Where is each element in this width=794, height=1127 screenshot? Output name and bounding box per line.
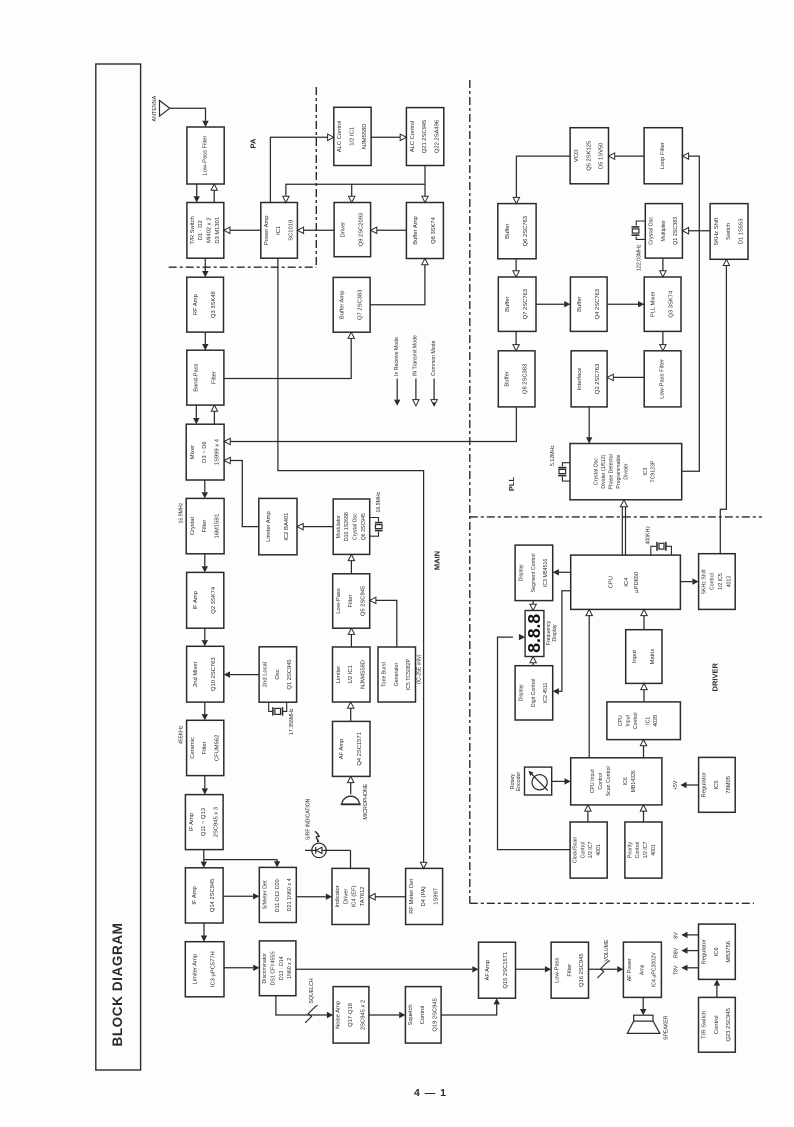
svg-text:5KHz Shift: 5KHz Shift (714, 217, 720, 245)
block RF Amp Q3 3SK48 (187, 277, 224, 332)
svg-text:Switch: Switch (726, 223, 732, 240)
block Discriminator DS1 CFY455S D13 D14 (259, 941, 296, 996)
svg-text:+5V: +5V (673, 780, 679, 790)
svg-text:Crystal Osc: Crystal Osc (353, 513, 359, 540)
IC3 TC9123P Crystal Osc Divider Phase Detector Programmable Divider (570, 444, 682, 500)
wire CPU to Display Digit Control (559, 591, 571, 692)
crystal X 17.356MHz (2nd local osc) (269, 702, 273, 711)
block Crystal Osc Multiplier Q1 2SC383 (645, 204, 682, 259)
block Low-Pass Filter (antenna) (187, 127, 224, 184)
svg-text:1S999 x 4: 1S999 x 4 (214, 438, 220, 465)
svg-text:VOLUME: VOLUME (604, 939, 610, 961)
wire Interface Q2 to IC3 TC9123P (588, 407, 590, 437)
block Interface Q2 2SC763 (571, 351, 607, 407)
crystal X 5.12MHz (reference) (562, 463, 570, 467)
wire ALC IC1 to ALC Q21/Q22 (371, 136, 400, 138)
wire Limiter Amp IC3 to Discriminator (224, 967, 253, 969)
svg-text:D4 (PA): D4 (PA) (421, 886, 427, 906)
svg-text:Ceramic: Ceramic (190, 737, 196, 759)
svg-text:Segment Control: Segment Control (531, 553, 537, 592)
block Modulator D10 1S2688 Crystal Osc Q6 2SC945 (333, 499, 370, 554)
wire AF Power Amp to speaker (642, 997, 644, 1009)
wire Ceramic Filter to IF Amp Q11-Q13 (204, 776, 206, 789)
bus CPU to programmable divider (622, 505, 625, 555)
svg-text:1/2 IC1: 1/2 IC1 (349, 127, 355, 146)
wire RF Amp to Band-Pass Filter (204, 332, 206, 344)
wire T/R Switch to LPF (transmit) (213, 190, 215, 202)
wire IF Amp Q11-Q13 to IF Amp Q14 (203, 850, 205, 862)
svg-text:IC1: IC1 (646, 717, 652, 725)
block Buffer Q7 2SC763 (498, 277, 536, 331)
svg-text:D10 1S2688: D10 1S2688 (344, 512, 350, 541)
svg-text:Display: Display (519, 564, 525, 581)
svg-text:Squelch: Squelch (408, 1004, 414, 1025)
svg-text:CFUM562: CFUM562 (215, 735, 221, 761)
svg-text:D1 1S553: D1 1S553 (738, 219, 744, 245)
svg-text:T8V: T8V (673, 965, 679, 975)
block AF Power Amp IC4 uPC2002V (623, 942, 661, 997)
block AF Amp Q15 2SC1571 (479, 942, 516, 998)
svg-text:Low-Pass: Low-Pass (336, 588, 342, 614)
wire Discriminator to AF Amp Q15 (296, 968, 472, 970)
block IF Amp Q14 2SC945 (185, 868, 223, 923)
block IF Amp Q2 3SK74 (187, 572, 224, 628)
svg-text:Control: Control (714, 1015, 720, 1034)
block Driver Q9 2SC2093 (334, 203, 371, 257)
svg-text:D13 · D14: D13 · D14 (279, 956, 285, 980)
svg-text:SPEAKER: SPEAKER (664, 1015, 670, 1040)
wire LPF Q16 to AF Power Amp via volume (589, 968, 618, 970)
svg-text:Phase Detector: Phase Detector (609, 453, 615, 489)
svg-text:1/2 IC1: 1/2 IC1 (348, 665, 354, 684)
svg-text:Q2 3SK74: Q2 3SK74 (211, 586, 217, 614)
block Tone Burst Generator IC5 TC5082P (378, 647, 416, 702)
svg-text:ALC Control: ALC Control (337, 121, 343, 153)
svg-text:Discriminator: Discriminator (262, 953, 268, 984)
svg-text:μPD650: μPD650 (634, 572, 640, 593)
svg-text:TA7612: TA7612 (360, 886, 366, 906)
block Squelch Control Q19 2SC945 (405, 987, 441, 1044)
block Regulator IC6 MB3756 (699, 924, 736, 979)
svg-text:SC1019: SC1019 (288, 220, 294, 241)
block PLL Mixer Q3 3SK74 (644, 277, 681, 331)
wire Rotary Encoder to Scan Control (552, 780, 565, 782)
svg-text:IC4 μPC2002V: IC4 μPC2002V (652, 952, 658, 987)
svg-text:PA: PA (248, 138, 257, 148)
svg-text:Q14 2SC945: Q14 2SC945 (210, 879, 216, 913)
block Low-Pass Filter Q16 2SC945 (551, 942, 588, 998)
svg-text:2SC945 x 3: 2SC945 x 3 (214, 807, 220, 837)
svg-text:D11·D12·D20·: D11·D12·D20· (275, 877, 281, 912)
svg-text:16.9MHz: 16.9MHz (178, 502, 184, 523)
svg-text:MB14326: MB14326 (631, 770, 637, 792)
wire LPF Q5 to Modulator (350, 560, 352, 574)
svg-text:Indicator: Indicator (335, 885, 341, 907)
wire AF Amp Q4 to Limiter (350, 708, 352, 722)
svg-text:Q8 3SK74: Q8 3SK74 (431, 216, 437, 244)
wire Buffer Amp Q7 to Buffer Amp Q8 (370, 265, 425, 305)
svg-text:MB3756: MB3756 (726, 941, 732, 963)
wire IF Amp Q14 to S/Meter Det (223, 895, 253, 897)
svg-text:Crystal Osc: Crystal Osc (649, 217, 655, 245)
svg-text:Q7 2SC383: Q7 2SC383 (358, 290, 364, 320)
svg-text:Mixer: Mixer (190, 445, 196, 459)
svg-text:AF Amp: AF Amp (485, 960, 491, 981)
microphone symbol (342, 796, 359, 803)
svg-text:Q6 2SC945: Q6 2SC945 (361, 513, 367, 540)
wire Input Matrix to CPU (643, 616, 645, 630)
svg-text:Crystal: Crystal (190, 517, 196, 535)
squelch control mark (305, 1005, 317, 1023)
svg-text:CPU: CPU (618, 715, 624, 726)
block 2nd Mixer Q10 2SC763 (187, 646, 224, 702)
wire IF Amp Q14 to Limiter Amp IC3 (203, 923, 205, 936)
wire Segment Control to Frequency Display (532, 601, 534, 605)
svg-text:Q11 ~ Q13: Q11 ~ Q13 (201, 808, 207, 836)
svg-text:Control: Control (598, 773, 604, 790)
wire S/Meter Det to Indicator Driver (296, 896, 326, 898)
svg-text:Q9 2SC2093: Q9 2SC2093 (358, 213, 364, 247)
svg-text:IC1: IC1 (276, 226, 282, 235)
wire Digit Control to Frequency Display (532, 663, 534, 666)
svg-text:D3 ~ D6: D3 ~ D6 (202, 441, 208, 462)
svg-text:Q2 2SC763: Q2 2SC763 (595, 364, 601, 394)
svg-text:455KHz: 455KHz (178, 725, 184, 744)
svg-text:CPU: CPU (609, 576, 615, 588)
wire 2nd Mixer to Ceramic Filter (204, 702, 206, 714)
block Input Matrix (626, 630, 662, 684)
block Crystal Filter 16M15B1 (186, 498, 224, 553)
svg-text:78M05: 78M05 (726, 776, 732, 794)
svg-text:Q3 3SK48: Q3 3SK48 (211, 291, 217, 318)
svg-text:5KHz Shift: 5KHz Shift (701, 569, 707, 594)
svg-text:IC3 μPC577H: IC3 μPC577H (211, 951, 217, 987)
wire 5KHz Shift Control to 5KHz Shift Switch (720, 266, 726, 554)
svg-text:Generator: Generator (394, 663, 400, 687)
svg-text:Q17·Q18: Q17·Q18 (348, 1003, 354, 1027)
svg-text:CPU Input: CPU Input (590, 769, 596, 793)
wire Mixer to Band-Pass Filter (transmit) (213, 411, 215, 424)
svg-text:Regulator: Regulator (702, 772, 708, 797)
block Limiter 1/2 IC1 NJM4558D (333, 647, 371, 702)
wire ALC feedback to Power Amp (286, 184, 425, 196)
block Priority Control 1/2 IC7 4001 (625, 822, 662, 878)
wire Power Amp to RF Meter Det (278, 258, 424, 862)
svg-text:DS1 CFY455S: DS1 CFY455S (270, 951, 276, 986)
svg-text:Q15 2SC1571: Q15 2SC1571 (503, 952, 509, 989)
svg-text:Control: Control (420, 1006, 426, 1025)
block Buffer Q8 2SC383 (498, 351, 535, 407)
svg-text:Amp: Amp (639, 964, 645, 975)
svg-text:Q5 2SC945: Q5 2SC945 (361, 586, 367, 616)
wire Regulator MB3756 8V output (688, 934, 699, 936)
svg-text:BLOCK DIAGRAM: BLOCK DIAGRAM (110, 922, 125, 1046)
wire Crystal Filter to IF Amp Q2 (204, 554, 206, 566)
CPU IC4 uPD650 (571, 555, 681, 609)
svg-text:Filter: Filter (202, 741, 208, 754)
frequency display 8.8.8 (525, 611, 544, 657)
svg-text:1N60 x 2: 1N60 x 2 (287, 958, 293, 979)
svg-text:T/R Switch: T/R Switch (702, 1011, 708, 1039)
wire Loop Filter to VCO (615, 155, 644, 157)
svg-text:Regulator: Regulator (702, 939, 708, 964)
wire CPU to 5KHz Shift Control (680, 581, 692, 583)
svg-text:Control: Control (633, 712, 639, 729)
wire T/R Switch Control to Regulator MB3756 (716, 986, 718, 998)
svg-text:RF Amp: RF Amp (193, 294, 199, 315)
svg-text:R8V: R8V (673, 947, 679, 958)
svg-text:4028: 4028 (653, 715, 659, 727)
wire Buffer Q4 to PLL Mixer (607, 303, 638, 305)
svg-text:MI402 x 2: MI402 x 2 (207, 218, 213, 243)
block Display Segment Control IC3 M54516 (515, 545, 553, 601)
svg-text:IC5 TC5082P: IC5 TC5082P (406, 658, 412, 690)
svg-text:Clock/Scan: Clock/Scan (573, 837, 579, 863)
wire IF Amp Q2 to 2nd Mixer (204, 628, 206, 640)
block Ceramic Filter CFUM562 (187, 720, 224, 775)
svg-text:PLL: PLL (507, 477, 516, 492)
section divider DRIVER bottom horizontal (470, 902, 754, 904)
wire ALC feedback to Buffer Amp Q8 (424, 166, 426, 197)
block AF Amp Q4 2SC1571 (333, 721, 371, 776)
svg-text:Control: Control (580, 842, 586, 859)
svg-text:Filter: Filter (348, 594, 354, 607)
wire Tone Burst Generator to LPF Q5 (376, 600, 397, 647)
antenna symbol (160, 101, 170, 117)
block CPU Input Control Scan Control IC6 MB14326 (571, 758, 662, 805)
wire Power Amp to ALC Control IC1 (270, 137, 327, 202)
crystal X 400KHz (CPU) (651, 546, 657, 555)
svg-text:Display: Display (552, 624, 558, 641)
svg-text:MAIN: MAIN (432, 551, 441, 570)
block ALC Control Q21 2SC945 Q22 2SA496 (406, 108, 443, 166)
wire 5KHz Shift Switch to Crystal Osc Multiplier (689, 230, 711, 232)
legend Common Mode (433, 379, 435, 400)
svg-text:Buffer: Buffer (505, 371, 511, 386)
wire Regulator 78M05 +5V output (687, 784, 699, 786)
svg-text:Input: Input (632, 650, 638, 663)
svg-text:Noise Amp: Noise Amp (336, 1001, 342, 1029)
svg-text:AF Amp: AF Amp (339, 739, 345, 760)
crystal X 122.03MHz (multiplier) (636, 221, 645, 226)
block Buffer Amp Q8 3SK74 (406, 203, 443, 259)
block S/Meter Det D11 D12 D20 D21 (259, 867, 296, 922)
svg-text:Divider (1/512): Divider (1/512) (601, 454, 607, 488)
svg-text:4001: 4001 (596, 844, 602, 856)
svg-text:Q23 2SC945: Q23 2SC945 (726, 1008, 732, 1042)
wire ALC feedback to Driver (351, 184, 353, 196)
wire Buffer Amp Q8 to Driver (376, 229, 406, 231)
svg-text:Low-Pass Filter: Low-Pass Filter (660, 359, 666, 399)
block Noise Amp Q17 Q18 2SC945x2 (333, 987, 369, 1044)
svg-text:Q1 2SC945: Q1 2SC945 (287, 659, 293, 689)
svg-text:1/2 IC7: 1/2 IC7 (643, 842, 649, 859)
svg-text:IC3 M54516: IC3 M54516 (543, 559, 549, 587)
svg-text:IC6: IC6 (623, 777, 629, 785)
block Band-Pass Filter (187, 350, 224, 405)
svg-text:Q3 3SK74: Q3 3SK74 (669, 290, 675, 318)
svg-text:D1 · D2: D1 · D2 (198, 220, 204, 240)
wire Limiter to LPF Q5 (350, 634, 352, 647)
block Display Digit Control IC2 4511 (515, 666, 553, 720)
svg-text:Multiplier: Multiplier (661, 220, 667, 242)
svg-text:16M15B1: 16M15B1 (214, 514, 220, 539)
svg-text:IN Transmit Mode: IN Transmit Mode (413, 335, 419, 376)
section divider MAIN/PLL vertical (469, 80, 471, 903)
block Regulator IC5 78M05 (699, 757, 736, 812)
svg-text:4 — 1: 4 — 1 (414, 1087, 447, 1099)
svg-text:Input: Input (626, 714, 632, 726)
wire Scan Control to IC1 4028 (643, 746, 645, 758)
svg-text:NJM558D: NJM558D (362, 124, 368, 150)
svg-text:5.12MHz: 5.12MHz (550, 445, 556, 466)
svg-text:D3 M1301: D3 M1301 (215, 217, 221, 244)
block T/R Switch Control Q23 2SC945 (699, 997, 736, 1052)
svg-text:Common Mode: Common Mode (431, 340, 437, 376)
volume control mark (597, 960, 609, 978)
block Limiter Amp IC2 BA401 (259, 498, 297, 554)
wire Limiter Amp IC2 to Mixer (230, 461, 259, 527)
block Indicator Driver IC4 TA7612 (332, 868, 369, 924)
svg-text:4001: 4001 (651, 844, 657, 856)
svg-text:1/2 IC7: 1/2 IC7 (588, 842, 594, 859)
svg-text:NJM4558D: NJM4558D (361, 660, 367, 689)
wire Buffer Q6 to Buffer Q7 (515, 259, 517, 271)
svg-text:ALC Control: ALC Control (410, 121, 416, 153)
svg-text:DRIVER: DRIVER (710, 663, 719, 692)
svg-text:Interface: Interface (577, 368, 583, 391)
svg-text:8.8.8: 8.8.8 (524, 614, 544, 653)
wire T/R Switch to RF Amp (204, 258, 206, 271)
svg-text:IC2 BA401: IC2 BA401 (284, 513, 290, 541)
svg-text:Encoder: Encoder (516, 772, 522, 792)
svg-text:4013: 4013 (727, 576, 733, 588)
svg-text:S/Meter Det: S/Meter Det (263, 880, 269, 909)
wire RF Meter Det to Indicator Driver (375, 896, 405, 898)
legend In Receive Mode (396, 379, 398, 400)
block Buffer Q4 2SC763 (570, 277, 607, 331)
svg-text:Low-Pass Filter: Low-Pass Filter (203, 135, 209, 175)
wire Regulator MB3756 R8V output (688, 950, 699, 952)
svg-text:Driver: Driver (343, 889, 349, 905)
svg-text:IF Amp: IF Amp (193, 591, 199, 609)
svg-text:Programmable: Programmable (616, 454, 622, 488)
svg-text:Control: Control (710, 573, 716, 590)
svg-text:Divider: Divider (624, 463, 630, 479)
svg-text:T/R Switch: T/R Switch (190, 216, 196, 244)
wire Buffer Q8 PLL to Mixer (230, 407, 517, 442)
wire antenna to Low-Pass Filter (170, 108, 206, 121)
svg-text:In Receive Mode: In Receive Mode (394, 337, 400, 376)
svg-text:16.9MHz: 16.9MHz (376, 491, 382, 512)
svg-text:Power Amp: Power Amp (264, 215, 270, 245)
block IF Amp Q11-Q13 2SC945x3 (185, 795, 223, 850)
svg-text:1/2 IC5: 1/2 IC5 (718, 573, 724, 590)
block Power Amp IC1 SC1019 (261, 203, 298, 259)
svg-text:Buffer: Buffer (577, 296, 583, 311)
block RF Meter Det D4 PA 1S997 (406, 868, 443, 924)
wire Squelch Control to AF Amp Q15 (441, 1004, 497, 1015)
block Clock/Scan Control 1/2 IC7 4001 (570, 822, 607, 878)
wire LPF to T/R Switch (receive) (196, 184, 198, 196)
block Low-Pass Filter Q5 2SC945 (333, 574, 370, 628)
wire Scan Control to CPU (588, 616, 590, 758)
svg-text:AF Power: AF Power (627, 958, 633, 981)
svg-text:Limiter Amp: Limiter Amp (266, 511, 272, 542)
svg-text:Q5 2SK125: Q5 2SK125 (586, 141, 592, 171)
wire Band-Pass Filter to Mixer (receive) (195, 405, 197, 418)
svg-text:Q10 2SC763: Q10 2SC763 (211, 657, 217, 691)
wire Crystal Osc Multiplier to PLL Mixer (662, 258, 664, 271)
svg-text:Q4 2SC1571: Q4 2SC1571 (357, 732, 363, 766)
crystal X 16.9MHz (modulator) (370, 518, 379, 522)
section divider PA vertical (315, 87, 317, 267)
block ALC Control 1/2 IC1 NJM558D (334, 107, 371, 165)
wire Driver to Power Amp (303, 229, 334, 231)
svg-text:ANTENNA: ANTENNA (152, 95, 158, 121)
block Mixer D3-D6 1S999x4 (186, 424, 224, 480)
svg-text:Buffer Amp: Buffer Amp (340, 291, 346, 320)
svg-text:(IC-25E only): (IC-25E only) (416, 654, 422, 684)
svg-text:17.356MHz: 17.356MHz (289, 708, 295, 735)
rotary encoder (525, 767, 552, 795)
wire Modulator to Limiter Amp IC2 (303, 526, 333, 528)
wire IC3 phase detector to Loop Filter (682, 156, 700, 471)
wire branch to S/Meter Det (204, 860, 277, 862)
block Buffer Amp Q7 2SC383 (333, 277, 370, 332)
svg-text:Q16 2SC945: Q16 2SC945 (579, 953, 585, 987)
speaker symbol (634, 1015, 653, 1021)
svg-text:RF Meter Det: RF Meter Det (409, 879, 415, 914)
svg-text:Q21 2SC945: Q21 2SC945 (422, 120, 428, 154)
svg-text:2nd Local: 2nd Local (263, 662, 269, 687)
svg-text:Limiter Amp: Limiter Amp (193, 954, 199, 985)
wire AF Amp Q15 to Low-Pass Filter Q16 (516, 968, 545, 970)
wire microphone to AF Amp Q4 (350, 782, 352, 794)
svg-text:Low-Pass: Low-Pass (555, 957, 561, 983)
svg-text:400KHz: 400KHz (646, 526, 652, 545)
svg-text:Buffer Amp: Buffer Amp (413, 216, 419, 245)
svg-text:Osc: Osc (275, 669, 281, 679)
block VCO Q5 2SK125 D5 1SV50 (570, 128, 608, 184)
block Buffer Q6 2SC763 (498, 204, 536, 259)
svg-text:Modulator: Modulator (336, 515, 342, 538)
svg-text:Q6 2SC763: Q6 2SC763 (523, 216, 529, 246)
block 5KHz Shift Switch D1 1S553 (710, 204, 748, 260)
wire Buffer Q7 to Buffer Q8 (515, 331, 517, 344)
svg-text:IC4: IC4 (624, 577, 630, 587)
wire IC1 4028 to Input Matrix (643, 690, 645, 702)
wire PLL Mixer to LPF (662, 331, 664, 344)
svg-text:IC4 (EF): IC4 (EF) (352, 885, 358, 907)
svg-text:2nd Mixer: 2nd Mixer (193, 661, 199, 687)
svg-text:Q4 2SC763: Q4 2SC763 (595, 289, 601, 319)
svg-text:Buffer: Buffer (505, 296, 511, 311)
svg-text:IC6: IC6 (714, 947, 720, 956)
svg-text:Q22 2SA496: Q22 2SA496 (434, 120, 440, 153)
block Loop Filter (644, 128, 682, 184)
svg-text:Priority: Priority (627, 842, 633, 859)
svg-text:MICROPHONE: MICROPHONE (363, 783, 369, 819)
svg-text:122.03MHz: 122.03MHz (636, 244, 642, 271)
svg-text:Scan Control: Scan Control (606, 766, 612, 796)
svg-text:IC3: IC3 (643, 467, 649, 475)
svg-text:Driver: Driver (340, 222, 346, 238)
svg-text:TC9123P: TC9123P (651, 460, 657, 482)
block 2nd Local Osc Q1 2SC945 (259, 647, 297, 702)
svg-text:Q19 2SC945: Q19 2SC945 (433, 998, 439, 1032)
wire Noise Amp to Squelch Control (369, 1014, 399, 1016)
